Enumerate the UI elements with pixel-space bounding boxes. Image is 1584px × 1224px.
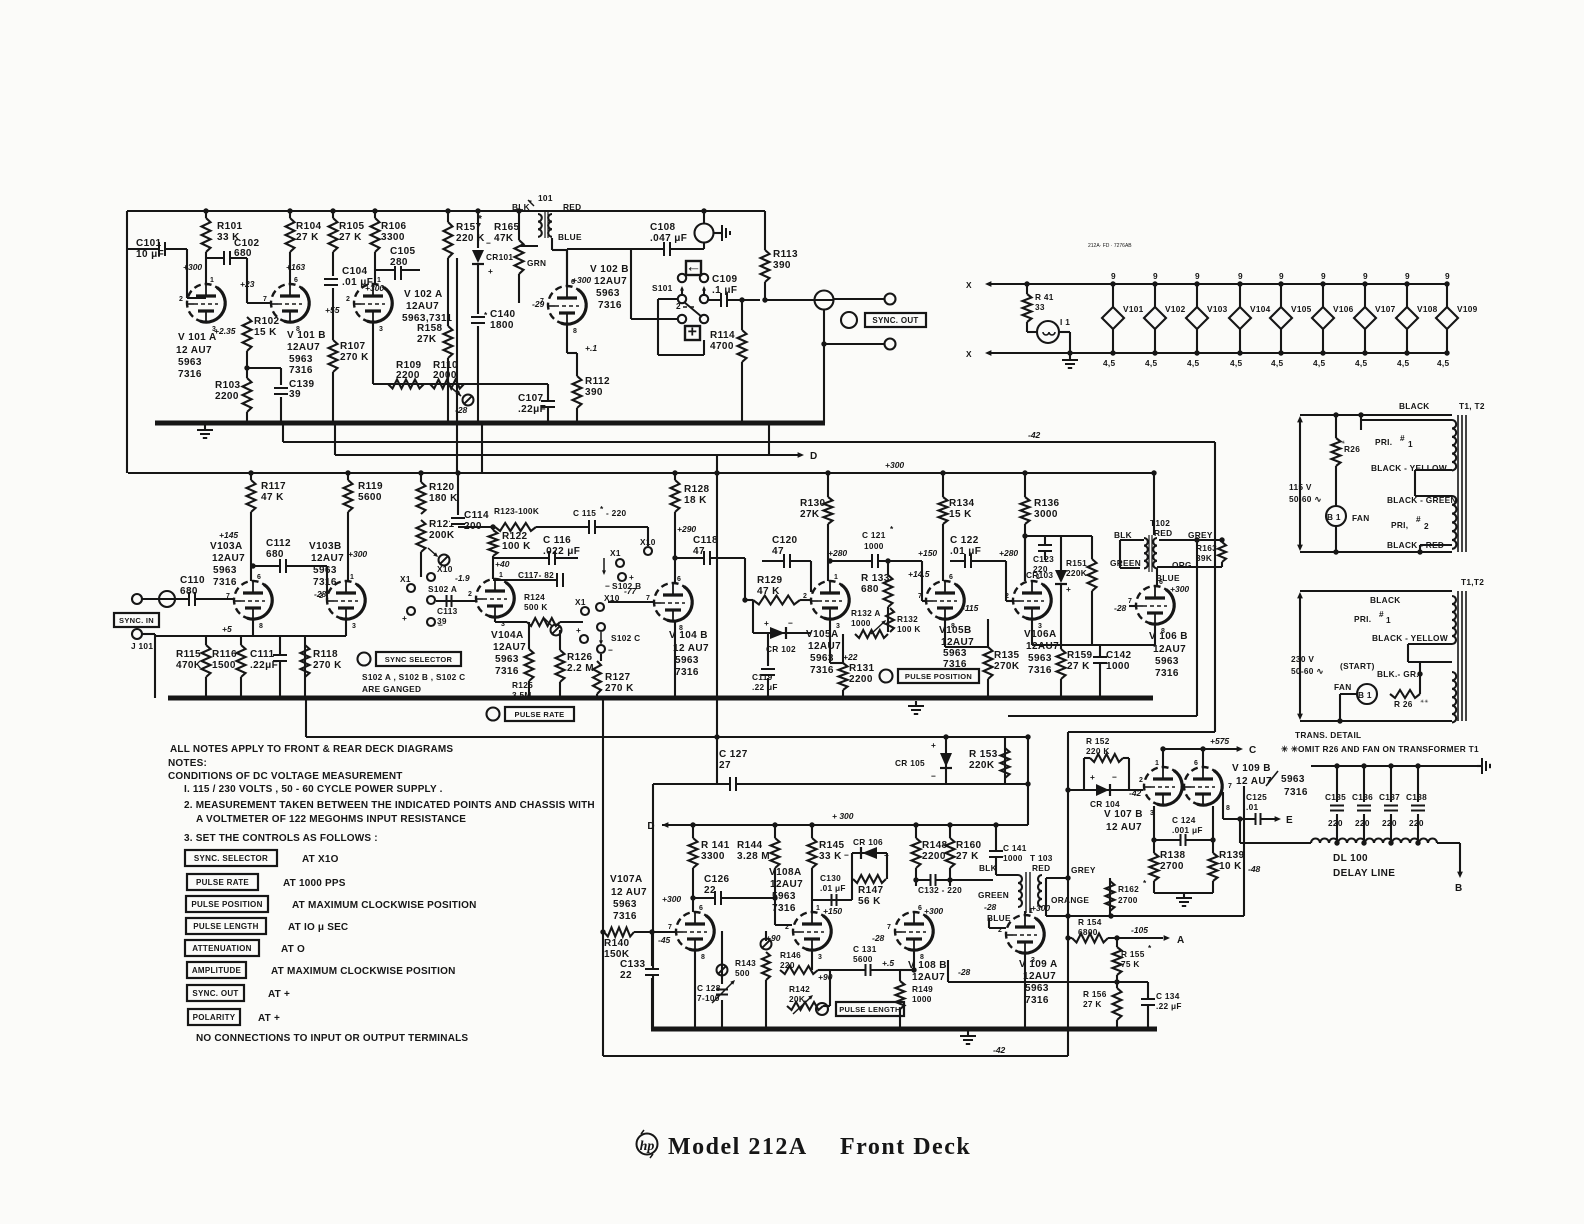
svg-text:1000: 1000: [1003, 853, 1023, 863]
svg-text:PULSE LENGTH: PULSE LENGTH: [839, 1005, 901, 1014]
svg-text:.01: .01: [1246, 802, 1259, 812]
svg-text:1: 1: [1408, 439, 1413, 449]
svg-text:8: 8: [296, 326, 300, 333]
svg-text:R149: R149: [912, 984, 933, 994]
svg-text:7316: 7316: [675, 667, 699, 678]
svg-text:7: 7: [887, 924, 891, 931]
svg-text:+300: +300: [572, 275, 591, 285]
svg-text:47: 47: [772, 546, 784, 557]
svg-text:7316: 7316: [289, 365, 313, 376]
svg-text:2: 2: [179, 296, 183, 303]
svg-text:R103: R103: [215, 380, 241, 391]
svg-text:2: 2: [785, 924, 789, 931]
svg-text:R160: R160: [956, 840, 982, 851]
svg-text:12 AU7: 12 AU7: [1106, 822, 1142, 833]
svg-text:hp: hp: [640, 1139, 655, 1154]
svg-text:47: 47: [693, 546, 705, 557]
svg-text:R120: R120: [429, 482, 455, 493]
svg-text:10 K: 10 K: [1219, 861, 1242, 872]
svg-text:CONDITIONS OF DC VOLTAGE: CONDITIONS OF DC VOLTAGE MEASUREMENT: [168, 771, 403, 782]
svg-text:2: 2: [998, 927, 1002, 934]
svg-text:X10: X10: [640, 537, 656, 547]
svg-text:12AU7: 12AU7: [1023, 971, 1056, 982]
svg-text:-28: -28: [958, 967, 971, 977]
svg-text:8: 8: [679, 625, 683, 632]
svg-text:I 1: I 1: [1060, 317, 1070, 327]
svg-text:R165: R165: [494, 222, 520, 233]
svg-text:4,5: 4,5: [1355, 358, 1368, 368]
svg-text:C 121: C 121: [862, 530, 886, 540]
svg-text:R 155: R 155: [1121, 949, 1145, 959]
svg-text:#: #: [1379, 609, 1384, 619]
svg-text:7316: 7316: [213, 577, 237, 588]
svg-text:2: 2: [468, 591, 472, 598]
svg-text:V102: V102: [1165, 304, 1186, 314]
svg-text:7316: 7316: [810, 665, 834, 676]
svg-text:12AU7: 12AU7: [406, 301, 439, 312]
svg-text:33 K: 33 K: [819, 851, 842, 862]
svg-text:R106: R106: [381, 221, 407, 232]
svg-text:5963: 5963: [1025, 983, 1049, 994]
svg-text:C101: C101: [136, 238, 162, 249]
svg-text:12AU7: 12AU7: [1153, 644, 1186, 655]
svg-text:+14.5: +14.5: [908, 569, 930, 579]
svg-text:3.28 M: 3.28 M: [737, 851, 770, 862]
svg-text:5963: 5963: [1028, 653, 1052, 664]
svg-text:CR 104: CR 104: [1090, 799, 1120, 809]
svg-text:3300: 3300: [701, 851, 725, 862]
svg-text:5963: 5963: [943, 648, 967, 659]
svg-text:+575: +575: [1210, 736, 1229, 746]
svg-text:-77: -77: [624, 586, 638, 596]
svg-text:R104: R104: [296, 221, 322, 232]
svg-text:BLUE: BLUE: [558, 232, 582, 242]
svg-text:C136: C136: [1352, 792, 1373, 802]
svg-text:R 153: R 153: [969, 749, 998, 760]
svg-text:2.2 M: 2.2 M: [567, 663, 594, 674]
svg-text:R129: R129: [757, 575, 783, 586]
svg-text:AT MAXIMUM CLOCKWISE POS: AT MAXIMUM CLOCKWISE POSITION: [292, 900, 477, 911]
svg-text:9: 9: [1405, 271, 1410, 281]
svg-text:R107: R107: [340, 341, 366, 352]
svg-text:−: −: [486, 238, 491, 248]
svg-text:12AU7: 12AU7: [311, 553, 344, 564]
svg-text:B 1: B 1: [1327, 512, 1341, 522]
svg-text:SYNC. SELECTOR: SYNC. SELECTOR: [194, 854, 268, 863]
svg-text:V109: V109: [1457, 304, 1478, 314]
svg-text:7: 7: [263, 296, 267, 303]
svg-text:✳✳: ✳✳: [1420, 699, 1428, 705]
svg-text:9: 9: [1279, 271, 1284, 281]
svg-text:R130: R130: [800, 498, 826, 509]
svg-text:C112: C112: [266, 538, 291, 549]
svg-text:C108: C108: [650, 222, 676, 233]
svg-text:220K: 220K: [969, 760, 995, 771]
svg-text:C119: C119: [752, 672, 773, 682]
svg-text:12 AU7: 12 AU7: [673, 643, 709, 654]
svg-text:C 115: C 115: [573, 508, 596, 518]
svg-text:ALL NOTES APPLY TO FRO: ALL NOTES APPLY TO FRONT & REAR DECK DIA…: [170, 744, 453, 755]
svg-text:-28: -28: [984, 902, 997, 912]
svg-text:#: #: [1416, 514, 1421, 524]
svg-text:C 141: C 141: [1003, 843, 1027, 853]
svg-text:6800: 6800: [1078, 927, 1098, 937]
svg-text:2: 2: [319, 593, 323, 600]
svg-text:5600: 5600: [853, 954, 873, 964]
svg-text:100 K: 100 K: [897, 624, 921, 634]
svg-text:7316: 7316: [598, 300, 622, 311]
svg-text:2700: 2700: [1118, 895, 1138, 905]
svg-text:27 K: 27 K: [339, 232, 362, 243]
svg-text:390: 390: [585, 387, 603, 398]
svg-text:X: X: [966, 349, 972, 359]
svg-text:500 K: 500 K: [524, 602, 548, 612]
svg-text:220K: 220K: [1066, 568, 1087, 578]
svg-text:R126: R126: [567, 652, 593, 663]
svg-text:NOTES:: NOTES:: [168, 758, 207, 769]
svg-text:.1 μF: .1 μF: [712, 285, 737, 296]
svg-text:4700: 4700: [710, 341, 734, 352]
svg-text:1000: 1000: [912, 994, 932, 1004]
svg-text:RED: RED: [1154, 528, 1172, 538]
svg-text:V 107 B: V 107 B: [1104, 809, 1143, 820]
svg-text:R 152: R 152: [1086, 736, 1110, 746]
svg-text:✳ ✳: ✳ ✳: [1281, 744, 1298, 754]
svg-text:V107: V107: [1375, 304, 1396, 314]
svg-text:4,5: 4,5: [1103, 358, 1116, 368]
svg-text:R 26: R 26: [1394, 699, 1413, 709]
svg-text:4,5: 4,5: [1187, 358, 1200, 368]
svg-text:3: 3: [212, 326, 216, 333]
svg-text:PULSE POSITION: PULSE POSITION: [905, 672, 972, 681]
svg-text:.01 μF: .01 μF: [820, 883, 846, 893]
svg-text:220: 220: [1328, 818, 1343, 828]
svg-text:7: 7: [1128, 598, 1132, 605]
svg-text:9: 9: [1111, 271, 1116, 281]
svg-text:39: 39: [289, 389, 301, 400]
svg-text:R162: R162: [1118, 884, 1139, 894]
svg-text:3000: 3000: [1034, 509, 1058, 520]
svg-text:C 134: C 134: [1156, 991, 1180, 1001]
svg-text:8: 8: [1226, 805, 1230, 812]
svg-text:D: D: [647, 821, 655, 832]
svg-text:7316: 7316: [1028, 665, 1052, 676]
svg-text:4,5: 4,5: [1397, 358, 1410, 368]
svg-text:7: 7: [918, 593, 922, 600]
svg-text:R125: R125: [512, 680, 533, 690]
svg-text:V108: V108: [1417, 304, 1438, 314]
svg-text:5963: 5963: [313, 565, 337, 576]
svg-text:6: 6: [257, 574, 261, 581]
svg-text:C142: C142: [1106, 650, 1132, 661]
svg-text:-1.9: -1.9: [455, 573, 470, 583]
svg-text:27K: 27K: [800, 509, 820, 520]
svg-text:1800: 1800: [490, 320, 514, 331]
svg-text:12AU7: 12AU7: [770, 879, 803, 890]
svg-text:SYNC. OUT: SYNC. OUT: [872, 316, 918, 325]
svg-text:270K: 270K: [994, 661, 1020, 672]
svg-text:C132 - 220: C132 - 220: [918, 885, 962, 895]
svg-text:−: −: [608, 645, 613, 655]
svg-text:270 K: 270 K: [313, 660, 342, 671]
svg-text:X1: X1: [610, 548, 621, 558]
svg-text:C140: C140: [490, 309, 516, 320]
svg-text:680: 680: [266, 549, 284, 560]
svg-text:1: 1: [1155, 760, 1159, 767]
svg-text:+23: +23: [240, 279, 255, 289]
svg-text:CR101: CR101: [486, 252, 513, 262]
svg-text:1: 1: [377, 277, 381, 284]
svg-text:V 102 A: V 102 A: [404, 289, 443, 300]
svg-text:680: 680: [234, 248, 252, 259]
svg-text:R144: R144: [737, 840, 763, 851]
svg-text:S101: S101: [652, 283, 673, 293]
svg-text:R 133: R 133: [861, 573, 890, 584]
svg-text:POLARITY: POLARITY: [193, 1013, 236, 1022]
svg-text:220: 220: [1355, 818, 1370, 828]
svg-text:DELAY LINE: DELAY LINE: [1333, 868, 1395, 879]
svg-text:47 K: 47 K: [757, 586, 780, 597]
svg-text:3: 3: [1031, 957, 1035, 964]
svg-text:6: 6: [949, 574, 953, 581]
svg-text:.22 μF: .22 μF: [752, 682, 778, 692]
svg-text:*: *: [1143, 878, 1147, 888]
svg-text:12AU7: 12AU7: [287, 342, 320, 353]
svg-text:12 AU7: 12 AU7: [611, 887, 647, 898]
svg-text:+300: +300: [662, 894, 681, 904]
svg-text:C 122: C 122: [950, 535, 979, 546]
svg-text:680: 680: [180, 586, 198, 597]
svg-text:AT MAXIMUM CLOCKWISE POS: AT MAXIMUM CLOCKWISE POSITION: [271, 966, 456, 977]
svg-text:9: 9: [1321, 271, 1326, 281]
svg-text:+280: +280: [999, 548, 1018, 558]
svg-text:BLUE: BLUE: [987, 913, 1011, 923]
svg-text:2: 2: [1139, 777, 1143, 784]
svg-text:PULSE POSITION: PULSE POSITION: [191, 900, 262, 909]
svg-text:R136: R136: [1034, 498, 1060, 509]
svg-text:R143: R143: [735, 958, 756, 968]
svg-text:AT +: AT +: [258, 1013, 280, 1024]
svg-text:+40: +40: [495, 559, 510, 569]
svg-text:V106A: V106A: [1024, 629, 1057, 640]
svg-text:390: 390: [773, 260, 791, 271]
svg-text:C123: C123: [1033, 554, 1054, 564]
svg-text:270 K: 270 K: [340, 352, 369, 363]
svg-text:-42: -42: [1028, 430, 1041, 440]
svg-text:C 124: C 124: [1172, 815, 1196, 825]
svg-text:15 K: 15 K: [254, 327, 277, 338]
svg-text:BLK: BLK: [979, 863, 997, 873]
svg-text:−: −: [788, 618, 793, 628]
svg-text:R115: R115: [176, 649, 201, 660]
svg-text:AT IO μ SEC: AT IO μ SEC: [288, 922, 348, 933]
svg-text:V 109 B: V 109 B: [1232, 763, 1271, 774]
svg-text:4,5: 4,5: [1230, 358, 1243, 368]
svg-text:AT X1O: AT X1O: [302, 854, 339, 865]
svg-text:3: 3: [501, 621, 505, 628]
svg-text:C 131: C 131: [853, 944, 877, 954]
svg-text:R135: R135: [994, 650, 1020, 661]
svg-text:2200: 2200: [396, 370, 420, 381]
svg-text:+: +: [1090, 772, 1095, 782]
svg-text:7316: 7316: [495, 666, 519, 677]
svg-text:OMIT R26 AND FAN ON TRANS: OMIT R26 AND FAN ON TRANSFORMER T1: [1298, 744, 1479, 754]
svg-text:5963: 5963: [772, 891, 796, 902]
svg-text:1: 1: [1029, 908, 1033, 915]
svg-text:+300: +300: [365, 283, 384, 293]
svg-text:39: 39: [437, 616, 447, 626]
svg-text:1: 1: [499, 572, 503, 579]
svg-text:6: 6: [677, 576, 681, 583]
svg-text:(START): (START): [1340, 661, 1375, 671]
svg-text:1: 1: [210, 277, 214, 284]
svg-text:CR 105: CR 105: [895, 758, 925, 768]
svg-text:DL 100: DL 100: [1333, 853, 1368, 864]
svg-text:X10: X10: [437, 564, 453, 574]
svg-text:2200: 2200: [215, 391, 239, 402]
svg-text:BLK.- GR.: BLK.- GR.: [1377, 669, 1419, 679]
svg-text:CR 102: CR 102: [766, 644, 796, 654]
svg-text:2700: 2700: [1160, 861, 1184, 872]
svg-text:GRN: GRN: [527, 258, 546, 268]
svg-text:Front Deck: Front Deck: [840, 1134, 971, 1160]
svg-text:C125: C125: [1246, 792, 1267, 802]
svg-text:C 116: C 116: [543, 535, 571, 546]
svg-text:V 101 A: V 101 A: [178, 332, 217, 343]
svg-text:7: 7: [226, 593, 230, 600]
svg-text:C114: C114: [464, 510, 489, 521]
svg-text:7316: 7316: [772, 903, 796, 914]
svg-text:2000: 2000: [433, 370, 457, 381]
svg-text:R151: R151: [1066, 558, 1087, 568]
svg-text:8: 8: [573, 328, 577, 335]
svg-text:680: 680: [861, 584, 879, 595]
svg-text:2. MEASUREMENT TAKEN BET: 2. MEASUREMENT TAKEN BETWEEN THE INDICAT…: [184, 800, 595, 811]
svg-text:1000: 1000: [1106, 661, 1130, 672]
svg-text:V105B: V105B: [939, 625, 972, 636]
svg-text:R139: R139: [1219, 850, 1245, 861]
svg-text:J 101: J 101: [131, 641, 153, 651]
svg-text:9: 9: [1363, 271, 1368, 281]
svg-text:R114: R114: [710, 330, 735, 341]
svg-text:FAN: FAN: [1334, 682, 1352, 692]
svg-text:SYNC. OUT: SYNC. OUT: [192, 989, 238, 998]
svg-text:R116: R116: [212, 649, 237, 660]
svg-text:220 K: 220 K: [456, 233, 485, 244]
svg-text:100 K: 100 K: [502, 541, 531, 552]
svg-text:A: A: [1177, 935, 1185, 946]
svg-text:V104A: V104A: [491, 630, 524, 641]
svg-text:AT O: AT O: [281, 944, 305, 955]
svg-text:PRI,: PRI,: [1391, 520, 1408, 530]
svg-text:12AU7: 12AU7: [912, 972, 945, 983]
svg-text:101: 101: [538, 193, 553, 203]
svg-text:+2.35: +2.35: [214, 326, 236, 336]
svg-text:7-100: 7-100: [697, 993, 720, 1003]
svg-text:27 K: 27 K: [296, 232, 319, 243]
svg-text:27K: 27K: [417, 334, 437, 345]
svg-text:FAN: FAN: [1352, 513, 1370, 523]
svg-text:3. SET THE CONTROLS AS: 3. SET THE CONTROLS AS FOLLOWS :: [184, 833, 378, 844]
svg-text:C133: C133: [620, 959, 646, 970]
svg-text:220: 220: [1382, 818, 1397, 828]
svg-text:R132: R132: [897, 614, 918, 624]
svg-text:5963: 5963: [495, 654, 519, 665]
svg-text:56 K: 56 K: [858, 896, 881, 907]
svg-text:+.1: +.1: [585, 343, 597, 353]
svg-text:C: C: [1249, 745, 1257, 756]
svg-text:7316: 7316: [313, 577, 337, 588]
svg-text:B 1: B 1: [1358, 690, 1372, 700]
svg-text:R123-100K: R123-100K: [494, 506, 539, 516]
svg-text:R128: R128: [684, 484, 710, 495]
svg-text:V101: V101: [1123, 304, 1144, 314]
svg-text:12AU7: 12AU7: [212, 553, 245, 564]
svg-text:PULSE RATE: PULSE RATE: [515, 710, 565, 719]
svg-text:-42: -42: [1129, 788, 1142, 798]
svg-text:9: 9: [1445, 271, 1450, 281]
svg-text:TRANS. DETAIL: TRANS. DETAIL: [1295, 730, 1361, 740]
svg-text:.022 μF: .022 μF: [543, 546, 580, 557]
svg-text:+: +: [576, 625, 581, 635]
svg-text:R146: R146: [780, 950, 801, 960]
svg-text:SYNC SELECTOR: SYNC SELECTOR: [385, 655, 453, 664]
svg-text:7316: 7316: [178, 369, 202, 380]
svg-text:R127: R127: [605, 672, 631, 683]
svg-text:7: 7: [1228, 783, 1232, 790]
svg-text:270 K: 270 K: [605, 683, 634, 694]
svg-text:BLACK: BLACK: [1399, 401, 1430, 411]
svg-text:5963: 5963: [289, 354, 313, 365]
svg-text:8: 8: [1161, 628, 1165, 635]
svg-text:BLK: BLK: [1114, 530, 1132, 540]
svg-text:5600: 5600: [358, 492, 382, 503]
svg-text:−: −: [844, 850, 849, 860]
svg-text:PULSE LENGTH: PULSE LENGTH: [193, 922, 258, 931]
svg-text:−: −: [605, 581, 610, 591]
svg-text:*: *: [600, 504, 604, 514]
svg-text:230 V: 230 V: [1291, 654, 1314, 664]
svg-text:-115: -115: [962, 603, 979, 613]
svg-text:3: 3: [352, 623, 356, 630]
svg-text:PRI.: PRI.: [1375, 437, 1392, 447]
svg-text:E: E: [1286, 815, 1293, 826]
svg-text:+22: +22: [843, 652, 858, 662]
svg-text:R101: R101: [217, 221, 243, 232]
svg-text:2: 2: [346, 296, 350, 303]
svg-text:5963: 5963: [613, 899, 637, 910]
svg-text:180 K: 180 K: [429, 493, 458, 504]
svg-text:6: 6: [294, 277, 298, 284]
svg-text:12 AU7: 12 AU7: [176, 345, 212, 356]
svg-text:C 128: C 128: [697, 983, 721, 993]
svg-text:PULSE RATE: PULSE RATE: [196, 878, 249, 887]
svg-text:C138: C138: [1406, 792, 1427, 802]
svg-text:BLK: BLK: [512, 202, 530, 212]
svg-text:B: B: [1455, 883, 1463, 894]
svg-text:V105A: V105A: [806, 629, 839, 640]
svg-text:50-60 ∿: 50-60 ∿: [1289, 494, 1322, 504]
svg-text:S102 A , S102 B , S102 C: S102 A , S102 B , S102 C: [362, 672, 465, 682]
svg-text:C126: C126: [704, 874, 730, 885]
svg-text:6: 6: [918, 905, 922, 912]
svg-text:2200: 2200: [922, 851, 946, 862]
svg-text:2200: 2200: [849, 674, 873, 685]
svg-text:R105: R105: [339, 221, 365, 232]
svg-text:-45: -45: [658, 935, 671, 945]
svg-text:S102 C: S102 C: [611, 633, 640, 643]
svg-text:+: +: [931, 740, 936, 750]
